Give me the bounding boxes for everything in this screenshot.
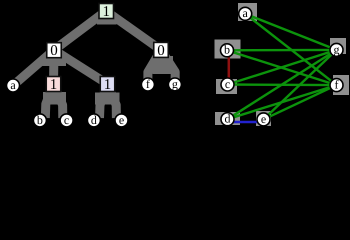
node a — [239, 6, 252, 20]
node blue 1 — [100, 77, 115, 94]
svg-text:d: d — [91, 113, 97, 127]
svg-text:g: g — [172, 77, 178, 91]
node d — [221, 112, 234, 126]
edge a-g — [245, 14, 336, 50]
svg-text:1: 1 — [102, 4, 110, 20]
svg-text:f: f — [335, 78, 339, 92]
svg-text:b: b — [224, 43, 230, 57]
wire right0-f — [148, 50, 161, 83]
wire pink1-c — [54, 84, 63, 118]
edge d-g — [228, 50, 337, 119]
svg-text:1: 1 — [50, 77, 58, 93]
leaf d — [87, 113, 100, 127]
edge e-f — [264, 85, 337, 119]
node pink 1 — [46, 77, 61, 94]
shadow behind node b — [215, 40, 241, 59]
leaf g — [168, 77, 181, 91]
svg-text:a: a — [10, 78, 16, 92]
edge b-f — [227, 50, 337, 85]
shadow behind node g — [330, 38, 346, 54]
svg-text:b: b — [37, 113, 43, 127]
wire left0-a — [13, 50, 54, 86]
leaf b — [33, 113, 46, 127]
node g — [330, 42, 343, 56]
svg-text:c: c — [225, 77, 230, 91]
leaf e — [115, 113, 128, 127]
svg-text:f: f — [146, 77, 150, 91]
shadow behind node f — [333, 75, 349, 95]
wire right0-g — [161, 50, 175, 83]
shadow behind node e — [256, 111, 271, 126]
edge c-f — [228, 83, 337, 86]
svg-text:0: 0 — [50, 43, 58, 59]
svg-text:a: a — [243, 6, 249, 20]
shadow behind node d — [215, 112, 240, 125]
node root 1 — [99, 4, 114, 20]
edge b-g — [227, 49, 337, 52]
edge d-e (blue) — [234, 121, 258, 124]
svg-text:g: g — [334, 42, 340, 56]
wire merge below root — [97, 17, 117, 25]
wire left0-pink1 — [49, 50, 59, 84]
wire blue1-e — [108, 84, 117, 118]
wire root-left0 — [54, 11, 106, 50]
svg-text:0: 0 — [157, 43, 165, 59]
node c — [221, 77, 234, 91]
leaf f — [141, 77, 154, 91]
svg-text:d: d — [225, 112, 231, 126]
svg-text:e: e — [261, 112, 266, 126]
node b — [221, 43, 234, 57]
wire merge below blue 1 — [95, 93, 120, 105]
svg-text:e: e — [119, 113, 124, 127]
edge a-f — [245, 14, 336, 85]
node f — [330, 78, 343, 92]
wire merge below right 0 — [153, 56, 174, 74]
shadow behind node a — [238, 3, 257, 21]
edge e-g — [264, 50, 337, 120]
wire left0-blue1 — [54, 50, 108, 84]
leaf c — [60, 113, 73, 127]
edge d-f — [228, 85, 337, 119]
leaf a — [7, 78, 20, 92]
edge c-g — [228, 50, 337, 85]
node right 0 — [154, 42, 169, 59]
wire merge below left 0 — [42, 57, 66, 67]
wire root-right0 — [106, 11, 161, 50]
wire merge below pink 1 — [43, 92, 66, 105]
svg-text:1: 1 — [104, 77, 112, 93]
node left 0 — [47, 43, 62, 60]
wire blue1-d — [100, 84, 108, 118]
shadow behind node c — [216, 79, 237, 94]
node e — [257, 112, 270, 126]
svg-text:c: c — [64, 113, 69, 127]
edge b-c (red) — [228, 57, 231, 79]
wire pink1-b — [45, 84, 53, 118]
